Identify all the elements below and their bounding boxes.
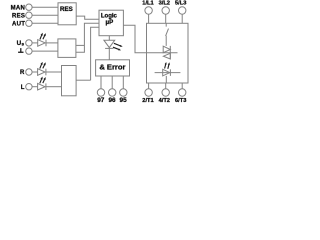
wire bus to input box xyxy=(76,79,91,81)
svg-text:95: 95 xyxy=(120,97,128,104)
terminal 2/T1 xyxy=(145,89,152,96)
wire L LED to input box xyxy=(46,86,62,88)
wire terminal 1/L1 xyxy=(148,15,150,24)
wire Us LED to supply box xyxy=(46,42,58,44)
wire supply box upper to riser xyxy=(76,44,85,46)
wire Logic to status LED xyxy=(108,36,110,41)
wire Logic to power box gate xyxy=(123,25,146,52)
terminal MAN xyxy=(26,4,32,10)
logic box U1 xyxy=(99,10,123,36)
wire Error box terminal 95 xyxy=(122,76,124,89)
wire bus vertical xyxy=(91,27,99,80)
svg-text:96: 96 xyxy=(108,97,116,104)
LED D2 at R input xyxy=(38,69,46,76)
wire AUT xyxy=(32,22,58,24)
terminal AUT xyxy=(26,20,32,26)
wire terminal 2/T1 xyxy=(148,83,150,89)
svg-text:97: 97 xyxy=(97,97,105,104)
svg-text:6/T3: 6/T3 xyxy=(175,98,186,104)
label ground xyxy=(18,48,23,52)
terminal 5/L3 xyxy=(179,7,186,14)
terminal 1/L1 xyxy=(145,7,152,14)
wire L to LED xyxy=(32,86,37,88)
wire MAN xyxy=(32,6,58,8)
LED arrows of measuring diode xyxy=(165,62,170,69)
wire ground xyxy=(32,50,58,52)
terminal 4/T2 xyxy=(162,89,169,96)
terminal 96 xyxy=(109,89,116,96)
terminal RES xyxy=(26,12,32,18)
terminal Us xyxy=(26,40,32,46)
terminal 95 xyxy=(120,89,127,96)
terminal 97 xyxy=(97,89,104,96)
supply box xyxy=(58,39,76,58)
svg-text:AUT: AUT xyxy=(12,21,25,27)
svg-text:s: s xyxy=(22,42,25,47)
measuring diode D5 xyxy=(155,69,181,83)
wire terminal 5/L3 xyxy=(181,15,183,24)
terminal ground xyxy=(26,48,32,54)
wire RES xyxy=(32,14,58,16)
svg-text:2/T1: 2/T1 xyxy=(142,98,153,104)
input box R/L xyxy=(62,66,77,96)
contact K1 inside power box xyxy=(166,23,169,46)
wire Error box terminal 96 xyxy=(111,76,113,89)
svg-text:MAN: MAN xyxy=(11,5,26,11)
wire terminal 3/L2 xyxy=(165,15,167,24)
svg-text:3/L2: 3/L2 xyxy=(159,1,170,7)
terminal L xyxy=(26,84,32,90)
wire R to LED xyxy=(32,71,37,73)
svg-text:4/T2: 4/T2 xyxy=(159,98,170,104)
LED D3 at L input xyxy=(38,83,46,90)
wire R LED to input box xyxy=(46,71,62,73)
terminal R xyxy=(26,69,32,75)
wire Us to LED xyxy=(32,42,37,44)
terminal 3/L2 xyxy=(162,7,169,14)
wire Error box terminal 97 xyxy=(100,76,102,89)
svg-text:5/L3: 5/L3 xyxy=(175,1,186,7)
LED D1 at Us input xyxy=(38,40,46,47)
wire RES box to Logic xyxy=(76,16,99,19)
svg-text:& Error: & Error xyxy=(99,63,125,72)
reset box RES xyxy=(58,3,76,25)
wire status LED to Error box xyxy=(108,48,110,60)
svg-text:R: R xyxy=(20,70,25,76)
svg-text:1/L1: 1/L1 xyxy=(142,1,153,7)
wire terminal 6/T3 xyxy=(181,83,183,89)
power box xyxy=(147,23,189,83)
wire terminal 4/T2 xyxy=(165,83,167,89)
terminal 6/T3 xyxy=(179,89,186,96)
svg-text:RES: RES xyxy=(12,13,25,19)
svg-text:L: L xyxy=(21,85,25,91)
status LED D4 xyxy=(104,40,115,48)
svg-text:µP: µP xyxy=(106,19,114,26)
wire supply box lower to Logic xyxy=(76,23,99,52)
triac Q1 xyxy=(147,46,178,59)
svg-text:RES: RES xyxy=(60,6,73,13)
error box xyxy=(96,60,130,76)
